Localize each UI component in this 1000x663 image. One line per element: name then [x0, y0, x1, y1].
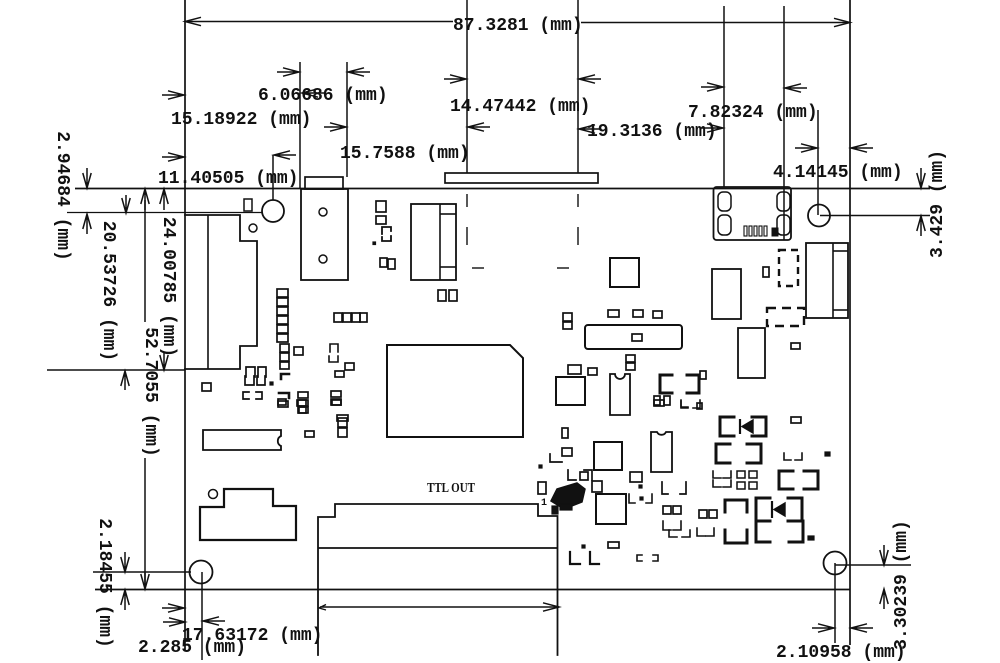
dot: [270, 382, 273, 385]
svg-text:11.40505 (mm): 11.40505 (mm): [158, 169, 298, 189]
svg-text:2.18455 (mm): 2.18455 (mm): [94, 518, 114, 648]
board bottom edge y=589: [95, 589, 850, 591]
dimension 2.285 (mm) arrows: [162, 604, 184, 612]
svg-text:2.10958 (mm): 2.10958 (mm): [776, 643, 906, 663]
small parts cluster left of mid connector: [376, 201, 386, 212]
reference line y=215 from top-right hole: [820, 215, 930, 217]
svg-text:2.94684 (mm): 2.94684 (mm): [52, 131, 72, 261]
dimension line y=607 to TTL connector: [320, 606, 559, 608]
svg-text:3.429 (mm): 3.429 (mm): [928, 150, 948, 258]
square IC: [556, 377, 585, 405]
reference line y=370: [47, 369, 185, 371]
thin reference line y=212: [67, 212, 262, 214]
extension line x=578: [577, 0, 579, 173]
extension line / board left edge x=185: [184, 0, 186, 651]
thick corner mark: [279, 393, 289, 398]
thick corner mark: [281, 374, 289, 379]
diode D1: [720, 417, 734, 436]
dot: [373, 242, 376, 245]
transistor Q1 (dark blob): [551, 483, 585, 509]
dimension 11.40505 (mm): [162, 153, 184, 161]
mounting hole top-right: [808, 205, 830, 227]
FPC connector top-left: [185, 215, 257, 369]
dimension 4.14145 (mm): [795, 144, 817, 152]
centerline dashes x=467: [466, 194, 468, 207]
extension line x=784 (USB right pad): [783, 6, 785, 240]
extension line x=202 from bottom-left hole: [201, 572, 203, 660]
thick bracket R: [687, 375, 699, 393]
dimension 15.18922 (mm): [162, 91, 184, 99]
dashed component: [767, 308, 804, 326]
extension line x=724 (USB left pad): [723, 6, 725, 187]
extension line x=347: [346, 62, 348, 177]
parts above big IC: [278, 401, 288, 407]
reference line y=565 from bottom-right hole: [835, 564, 911, 566]
dimension 2.94684 (mm) left: [83, 168, 91, 188]
TTL OUT connector: [318, 504, 558, 655]
small hole: [249, 224, 257, 232]
button footprint bottom-left: [200, 489, 296, 540]
mounting hole bottom-right: [824, 552, 847, 575]
svg-text:7.82324 (mm): 7.82324 (mm): [688, 103, 818, 123]
svg-text:6.06686 (mm): 6.06686 (mm): [258, 86, 388, 106]
dimension 2.10958 (mm): [812, 624, 834, 632]
dimension 52.7055 (mm): [141, 189, 149, 210]
small part: [244, 199, 252, 211]
svg-text:19.3136 (mm): 19.3136 (mm): [587, 122, 717, 142]
svg-text:1: 1: [541, 498, 547, 509]
svg-text:4.14145 (mm): 4.14145 (mm): [773, 163, 903, 183]
centerline dashes x=578: [577, 194, 579, 207]
component thick brackets: [716, 444, 730, 463]
pair below mid connector: [438, 290, 446, 301]
svg-text:24.00785 (mm): 24.00785 (mm): [158, 217, 178, 357]
diode symbol: [742, 420, 753, 433]
key connector top-center: [301, 189, 348, 280]
extension line / board right edge x=850: [849, 0, 851, 645]
L mark: [570, 552, 580, 564]
bracket component below D2: [756, 521, 770, 542]
tall IC: [738, 328, 765, 378]
long IC U4: [585, 325, 682, 349]
dimension 19.3136 (mm): [579, 125, 601, 133]
svg-text:87.3281 (mm): 87.3281 (mm): [453, 16, 583, 36]
svg-text:3.30239 (mm): 3.30239 (mm): [892, 520, 912, 650]
dimension 2.18455 (mm) bottom-left: [121, 552, 129, 572]
extension line x=300: [299, 62, 301, 188]
center-right square U3: [596, 494, 626, 524]
svg-text:20.53726 (mm): 20.53726 (mm): [98, 221, 118, 361]
row of caps x=334: [334, 313, 342, 322]
connector mid (with side column): [411, 204, 456, 280]
diode D2: [756, 498, 770, 521]
small hole bottom-left: [209, 490, 218, 499]
vertical bracket component: [725, 500, 747, 512]
connector tab on top edge: [305, 177, 343, 189]
dimension 3.30239 (mm) right: [880, 545, 888, 565]
stack x=298: [298, 392, 308, 398]
switch dashed: [779, 250, 798, 286]
edge connector bar top: [445, 173, 598, 183]
USB pin hatch: [744, 226, 747, 236]
crystal Y2 (notched top): [610, 374, 630, 415]
2x2 small squares: [737, 471, 745, 478]
svg-text:TTL OUT: TTL OUT: [427, 481, 476, 496]
crystal Y1 (notched top): [651, 432, 672, 472]
svg-text:17.63172 (mm): 17.63172 (mm): [182, 626, 322, 646]
svg-text:15.18922 (mm): 15.18922 (mm): [171, 110, 311, 130]
parts right of big IC: [562, 428, 568, 438]
micro-USB connector: [714, 187, 792, 240]
svg-text:14.47442 (mm): 14.47442 (mm): [450, 97, 590, 117]
square IC top: [610, 258, 639, 287]
small part left: [202, 383, 211, 391]
mounting hole top-left: [262, 200, 284, 222]
bracket mark: [382, 227, 391, 234]
IC right of USB: [712, 269, 741, 319]
connector right edge (with side column): [806, 243, 848, 318]
reference line y=572 to bottom-left hole: [93, 571, 191, 573]
resistor column x=277: [277, 289, 288, 297]
bracket cluster under FPC: [246, 367, 255, 377]
extension line x=467: [466, 0, 468, 173]
thick bracket L: [660, 375, 672, 393]
mounting hole bottom-left: [190, 561, 213, 584]
dimension 15.7588 (mm): [324, 123, 346, 131]
center-right square U2: [594, 442, 622, 470]
diode symbol: [774, 503, 785, 516]
bracket mark: [382, 236, 391, 241]
dimension 87.3281 (mm) top: [185, 21, 453, 23]
big IC U1 (chamfered): [387, 345, 523, 437]
svg-text:52.7055 (mm): 52.7055 (mm): [140, 327, 160, 457]
dimension 7.82324 (mm): [701, 83, 723, 91]
stack x=280: [280, 344, 289, 352]
dimension 3.429 (mm) right: [917, 168, 925, 188]
dimension 20.53726 (mm): [122, 195, 130, 213]
mid small marks: [330, 344, 338, 352]
svg-text:15.7588 (mm): 15.7588 (mm): [340, 144, 470, 164]
board top edge y=188: [75, 188, 930, 190]
extension line x=835 from bottom-right hole: [834, 563, 836, 643]
dimension 24.00785 (mm): [160, 189, 168, 210]
dimension 6.06686 (mm): [277, 68, 299, 76]
leader line x=818 to top-right hole: [817, 110, 819, 215]
IC with notch: [203, 430, 281, 450]
dimension 14.47442 (mm): [444, 75, 466, 83]
